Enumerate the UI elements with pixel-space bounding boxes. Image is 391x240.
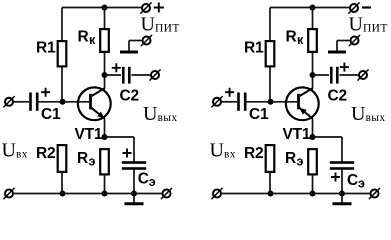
terminal (supply +): [140, 2, 151, 13]
wire (C2 to output terminal): [132, 74, 151, 76]
terminal (supply -): [348, 2, 359, 13]
wire (Re to bottom rail): [312, 175, 314, 194]
wire (supply common lead): [337, 40, 350, 42]
wire (emitter): [104, 119, 106, 138]
wire (R1 to base node): [61, 67, 63, 102]
wire (bottom rail): [14, 193, 163, 195]
label - (supply polarity): [362, 6, 371, 8]
svg-text:C1: C1: [41, 106, 61, 123]
ground (supply common bar): [328, 41, 346, 53]
svg-text:VT1: VT1: [283, 126, 311, 143]
capacitor Сэ: [330, 161, 365, 190]
wire (down to Ce): [341, 137, 343, 162]
wire (collector to C2): [313, 74, 330, 76]
node (emitter / Re / Ce junction): [102, 134, 108, 140]
wire (C2 to output terminal): [340, 74, 359, 76]
wire (top rail to R1): [269, 8, 271, 42]
node (R2 / bottom rail): [60, 191, 66, 197]
resistor R2: [244, 145, 274, 172]
wire (top supply rail): [62, 7, 142, 9]
terminal (bottom left): [3, 188, 14, 199]
capacitor Сэ: [122, 149, 156, 190]
node (top rail / Rk junction): [310, 5, 316, 11]
capacitor C2: [328, 63, 349, 105]
terminal (bottom left): [211, 188, 222, 199]
capacitor C1: [29, 88, 61, 123]
ground (supply common bar): [120, 41, 138, 53]
terminal (output): [357, 69, 368, 80]
ground: [333, 194, 352, 204]
transistor VT1 (NPN): [75, 87, 111, 143]
svg-text:C2: C2: [120, 88, 139, 105]
wire (Rk to collector): [312, 53, 314, 89]
wire (top rail to R1): [61, 8, 63, 42]
terminal (input): [3, 96, 14, 107]
wire (Re to bottom rail): [104, 175, 106, 194]
node (emitter / Re / Ce junction): [310, 134, 316, 140]
terminal (output): [149, 69, 160, 80]
wire (emitter to Ce): [105, 136, 135, 138]
capacitor C2: [112, 63, 139, 104]
terminal (supply common): [141, 35, 152, 46]
node (collector / C2 junction): [310, 72, 316, 78]
wire (Ce to bottom rail): [341, 170, 343, 194]
wire (collector to C2): [105, 74, 122, 76]
wire (emitter to Ce): [313, 136, 343, 138]
wire (input to C1): [222, 101, 238, 103]
resistor R1: [36, 40, 66, 67]
node (R2 / bottom rail): [268, 191, 274, 197]
wire (R2 to bottom rail): [269, 173, 271, 194]
wire (C1 to base): [247, 101, 298, 103]
resistor R2: [36, 145, 66, 172]
resistor Rэ: [77, 149, 109, 174]
wire (top supply rail): [270, 7, 350, 9]
svg-text:R1: R1: [36, 40, 56, 57]
wire (supply common lead): [129, 40, 142, 42]
terminal (bottom right): [161, 188, 172, 199]
capacitor C1: [225, 88, 269, 123]
svg-text:C1: C1: [249, 106, 269, 123]
svg-text:C2: C2: [328, 88, 347, 105]
resistor R1: [244, 40, 274, 67]
wire (input to C1): [14, 101, 30, 103]
label + (supply polarity): [154, 3, 164, 13]
node (Re / bottom rail): [310, 191, 316, 197]
node (Ce / bottom rail / ground): [339, 191, 345, 197]
node (Re / bottom rail): [102, 191, 108, 197]
node (Ce / bottom rail / ground): [131, 191, 137, 197]
wire (R2 to bottom rail): [61, 173, 63, 194]
ground: [125, 194, 144, 204]
resistor Rэ: [285, 149, 317, 174]
svg-text:VT1: VT1: [75, 126, 103, 143]
resistor Rк: [286, 29, 317, 52]
svg-text:R1: R1: [244, 40, 264, 57]
node (collector / C2 junction): [102, 72, 108, 78]
terminal (bottom right): [369, 188, 380, 199]
wire (C1 to base): [39, 101, 90, 103]
node (base / R1 / R2 junction): [268, 99, 274, 105]
transistor VT1 (PNP): [283, 87, 319, 143]
wire (top rail to Rk): [104, 8, 106, 30]
wire (emitter): [312, 119, 314, 138]
resistor Rк: [78, 29, 109, 52]
wire (bottom rail): [222, 193, 371, 195]
node (base / R1 / R2 junction): [60, 99, 66, 105]
wire (down to Ce): [133, 137, 135, 162]
wire (Rk to collector): [104, 53, 106, 89]
terminal (input): [211, 96, 222, 107]
svg-text:R2: R2: [36, 145, 55, 162]
node (top rail / Rk junction): [102, 5, 108, 11]
wire (R1 to base node): [269, 67, 271, 102]
wire (Ce to bottom rail): [133, 170, 135, 194]
svg-text:R2: R2: [244, 145, 263, 162]
terminal (supply common): [349, 35, 360, 46]
wire (top rail to Rk): [312, 8, 314, 30]
